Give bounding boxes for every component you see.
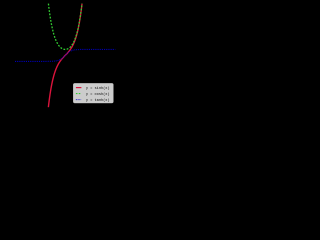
curve y=tanh(x) (blue dotted) <box>15 49 115 61</box>
legend labels <box>86 86 110 103</box>
legend handle sinh <box>76 87 82 89</box>
curve y=cosh(x) (green dashed) <box>48 4 82 50</box>
curve y=sinh(x) (red solid) <box>48 4 82 108</box>
legend box <box>73 83 113 103</box>
background <box>0 0 120 120</box>
legend handle tanh <box>76 99 82 101</box>
legend handle cosh <box>76 93 82 95</box>
